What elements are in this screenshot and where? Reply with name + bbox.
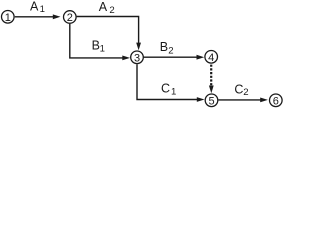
node 5	[205, 94, 218, 107]
svg-text:1: 1	[5, 12, 11, 24]
svg-text:C: C	[234, 82, 243, 96]
node 2	[64, 11, 77, 24]
svg-text:2: 2	[67, 12, 73, 24]
svg-text:3: 3	[134, 52, 140, 64]
svg-text:A: A	[30, 0, 39, 13]
svg-text:6: 6	[273, 95, 279, 107]
svg-text:1: 1	[171, 86, 176, 97]
wire A1 arrow shaft from node 1 to node 2	[15, 16, 54, 18]
svg-text:B: B	[160, 40, 168, 54]
arrowhead C2	[260, 98, 268, 103]
svg-text:1: 1	[40, 4, 45, 15]
wire C1 down from node 3 then right to node 5	[137, 64, 198, 99]
node 6	[270, 94, 283, 107]
svg-text:1: 1	[100, 44, 105, 55]
wire C2 arrow shaft from node 5 to node 6	[218, 99, 261, 101]
dummy activity dotted line from node 4 down to node 5	[210, 65, 212, 87]
svg-text:A: A	[99, 0, 108, 14]
node 4	[205, 51, 218, 64]
arrowhead C1	[197, 97, 205, 102]
arrowhead B2	[197, 55, 205, 60]
arrowhead dummy	[209, 86, 214, 94]
svg-text:5: 5	[208, 95, 214, 107]
svg-text:4: 4	[208, 52, 214, 64]
wire B1 down from node 2 then right to node 3	[70, 24, 124, 58]
svg-text:2: 2	[168, 46, 173, 57]
wire A2 horizontal from node 2 then down to node 3	[77, 17, 139, 45]
wire B2 arrow shaft from node 3 to node 4	[144, 56, 198, 58]
arrowhead A1	[53, 14, 61, 19]
svg-text:2: 2	[109, 5, 114, 16]
arrowhead B1	[122, 56, 130, 61]
node 3	[131, 51, 144, 64]
svg-text:C: C	[161, 82, 170, 96]
arrowhead A2	[136, 43, 141, 51]
node 1	[2, 10, 15, 23]
svg-text:2: 2	[243, 87, 248, 98]
